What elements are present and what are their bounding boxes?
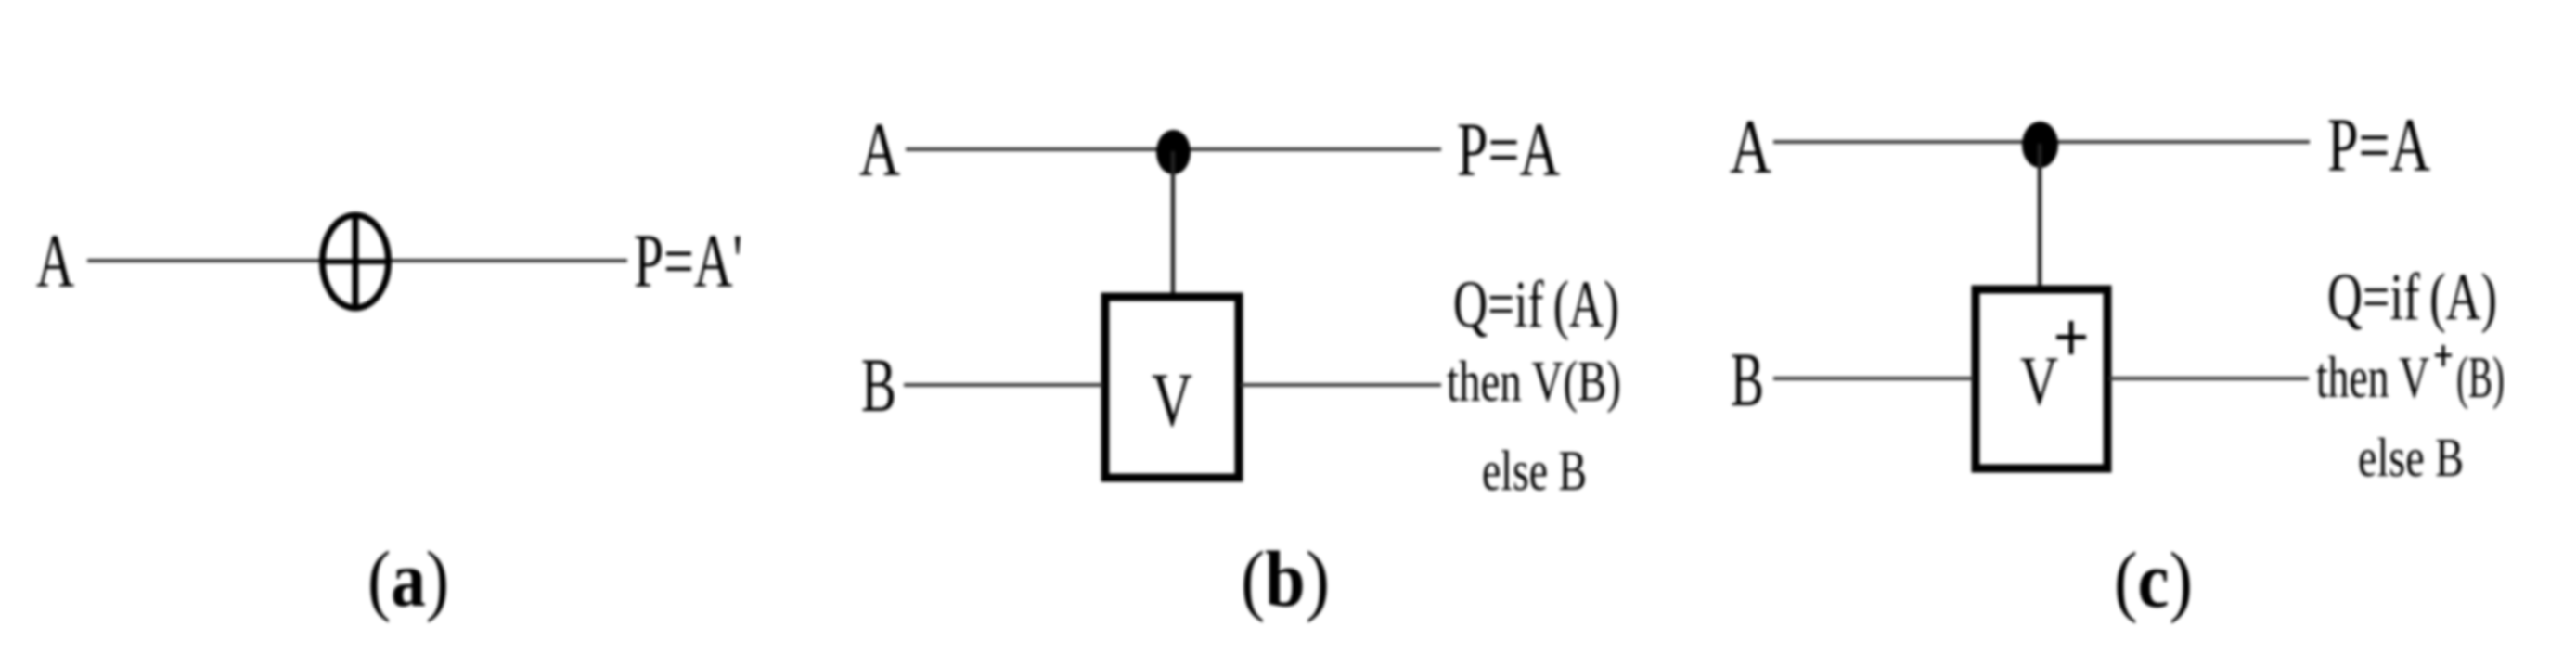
svg-text:P=A': P=A' xyxy=(634,218,742,303)
svg-text:(c): (c) xyxy=(2114,535,2193,624)
svg-text:P=A: P=A xyxy=(2327,102,2430,187)
svg-text:A: A xyxy=(859,107,900,192)
svg-text:B: B xyxy=(1731,337,1764,422)
svg-text:B: B xyxy=(861,342,896,428)
svg-text:(a): (a) xyxy=(367,534,449,623)
svg-text:V: V xyxy=(2020,343,2058,420)
svg-text:A: A xyxy=(1730,104,1771,190)
svg-text:then V(B): then V(B) xyxy=(1447,351,1621,414)
svg-text:(b): (b) xyxy=(1241,534,1330,623)
svg-text:Q=if (A): Q=if (A) xyxy=(1453,267,1619,341)
svg-text:else B: else B xyxy=(2358,427,2464,488)
svg-text:(B): (B) xyxy=(2456,344,2505,410)
svg-text:Q=if (A): Q=if (A) xyxy=(2327,260,2497,334)
svg-text:A: A xyxy=(36,218,74,303)
svg-text:V: V xyxy=(1152,357,1192,442)
svg-text:then V: then V xyxy=(2316,344,2429,410)
svg-text:P=A: P=A xyxy=(1457,107,1560,192)
svg-text:else B: else B xyxy=(1482,441,1587,503)
